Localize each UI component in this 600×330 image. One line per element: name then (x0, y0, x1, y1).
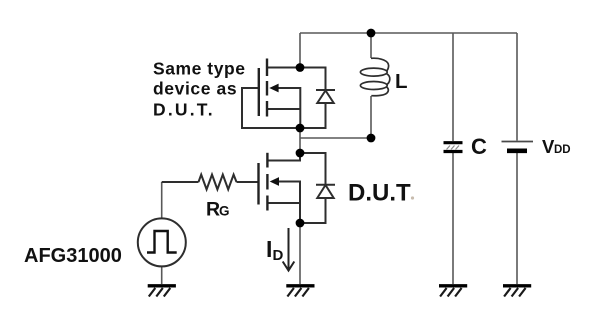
svg-text:AFG31000: AFG31000 (24, 245, 122, 267)
svg-text:C: C (471, 134, 487, 159)
svg-text:DD: DD (554, 144, 571, 156)
svg-text:Same type: Same type (153, 59, 246, 79)
svg-text:G: G (219, 203, 230, 218)
svg-text:D.U.T.: D.U.T. (153, 100, 215, 120)
svg-text:D: D (273, 247, 284, 264)
svg-text:R: R (206, 198, 220, 220)
svg-text:device as: device as (153, 79, 237, 99)
svg-text:D.U.T: D.U.T (348, 180, 411, 207)
svg-text:I: I (266, 236, 272, 262)
svg-text:L: L (395, 70, 408, 93)
